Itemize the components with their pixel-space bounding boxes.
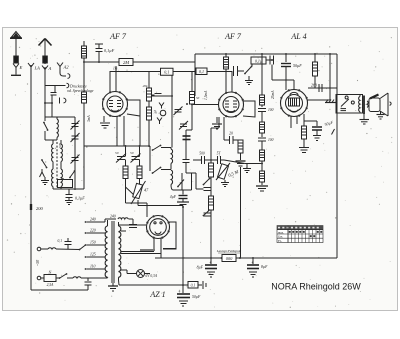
capacitor C 100b: [258, 138, 274, 150]
trimmer capacitor C t3: [71, 155, 80, 164]
field coil box 000: [216, 249, 242, 262]
wire y248 link: [140, 249, 176, 251]
svg-text:000: 000: [226, 256, 233, 261]
resistor R8: [238, 140, 243, 160]
wire A lead down: [44, 67, 46, 117]
potentiometer 47 tone tilted: [131, 181, 149, 206]
jack plug pickup bottom: [157, 118, 162, 125]
node junction at 125.5,146: [125, 145, 127, 147]
transformer T1 secondary winding: [61, 140, 62, 164]
wire AZ1 filament pair: [121, 252, 161, 254]
wire grid stub tube V1: [109, 71, 111, 92]
tap 220: [85, 229, 105, 234]
resistor box label 0,1u upper: [251, 57, 272, 66]
capacitor C g2 dark: [183, 136, 191, 140]
svg-text:50: 50: [115, 151, 119, 155]
dark wedge arrow: [370, 95, 379, 99]
capacitor C to ground 0,1uF: [66, 189, 86, 202]
svg-text:100: 100: [268, 138, 274, 142]
svg-text:125: 125: [90, 253, 96, 257]
svg-text:AF 7: AF 7: [224, 32, 242, 41]
wire diagonal to pot wiper: [126, 187, 135, 196]
lightning arrester on A lead: [43, 56, 48, 63]
wire V3 top stub: [285, 85, 287, 90]
switch block box: [58, 178, 73, 187]
ground symbol under C: [65, 201, 73, 205]
svg-text:AZ 1: AZ 1: [149, 290, 165, 299]
resistor box label 0,1 on W3: [196, 68, 207, 75]
choke 200 in LA lead: [30, 204, 32, 210]
svg-text:240: 240: [90, 218, 96, 222]
wire V1 pin down x117: [116, 116, 118, 146]
switch S3: [69, 170, 75, 178]
wire AZ1 pins down: [153, 238, 155, 249]
tap 110: [85, 265, 105, 270]
wire lamp tap: [121, 270, 127, 274]
svg-text:7k: 7k: [154, 111, 158, 115]
transformer T2 primary winding: [52, 164, 53, 189]
wire V2 grid stub: [225, 71, 227, 92]
wire link x195 down: [194, 90, 196, 96]
electrolytic 8uF right: [247, 258, 268, 277]
wire V2 left to x192: [192, 104, 219, 106]
fuse coil mains 2: [73, 277, 95, 278]
svg-text:Ger.: Ger.: [278, 235, 283, 239]
trimmer capacitor C g1: [174, 107, 183, 116]
resistor R4: [123, 160, 128, 184]
wire anode bracket V1: [127, 100, 140, 116]
ground at transformer bottom: [108, 283, 118, 291]
wire vertical x172 to oscillator coil: [171, 75, 173, 147]
svg-text:FL.: FL.: [278, 239, 283, 243]
fuse Si 2A: [41, 271, 59, 289]
svg-text:220: 220: [90, 229, 96, 233]
node junction at 187,104: [186, 103, 188, 105]
antenna A symbol: [39, 39, 52, 57]
wire V3 cathode pins: [290, 117, 292, 129]
capacitor C series x272: [270, 56, 274, 81]
secondary winding: [119, 222, 121, 280]
node dot x172 y96: [171, 95, 173, 97]
node junction at 99,62: [98, 61, 100, 63]
svg-text:od. Sprechanlage: od. Sprechanlage: [67, 89, 94, 93]
tap 150: [85, 241, 105, 246]
wire heater x183: [182, 206, 184, 286]
fuse coil mains 1: [41, 248, 80, 250]
node junction at 226,54: [225, 53, 227, 55]
svg-text:50µF: 50µF: [293, 63, 302, 68]
capacitor mains 2: [85, 278, 92, 290]
jack plug ground side: [40, 169, 45, 177]
svg-text:8µF: 8µF: [261, 265, 268, 269]
svg-text:+: +: [209, 260, 212, 265]
node junction at 139.5,146: [139, 145, 141, 147]
lightning arrester on E lead: [14, 56, 18, 63]
mains terminal 2: [37, 276, 41, 280]
hatched chassis link: [325, 100, 336, 103]
trimmer capacitor C t1: [71, 121, 80, 130]
svg-text:LA: LA: [34, 66, 41, 71]
transformer T2 secondary winding: [61, 164, 62, 189]
jack plug E: [11, 64, 23, 76]
resistor box label 2M: [119, 59, 133, 66]
jack plug pickup top: [159, 103, 164, 109]
trimmer capacitor C t2: [71, 133, 80, 142]
primary winding: [105, 220, 107, 278]
wire horizontal y96: [149, 95, 172, 97]
wire anode down to W4: [139, 116, 141, 146]
node junction at 221.5,258: [221, 257, 223, 259]
wire Drucktaste branch: [45, 83, 69, 88]
tube V1 AF7 envelope: [102, 91, 128, 117]
wire x240 long vertical to rail: [240, 167, 242, 258]
svg-text:A: A: [48, 66, 52, 71]
transformer core dashes: [56, 142, 58, 188]
node junction at 211,160: [210, 159, 212, 161]
transformer T1 primary winding: [52, 140, 53, 164]
node junction at 315,54: [314, 53, 316, 55]
trimmer capacitor C osc2: [130, 151, 141, 163]
switch S9: [203, 178, 211, 186]
wire coupling to V3 grid: [272, 80, 294, 89]
wire heater bus y285: [119, 284, 188, 286]
svg-text:110: 110: [90, 265, 96, 269]
switch selector arm: [79, 245, 86, 250]
node junction at 262,54: [261, 53, 263, 55]
capacitor across mains: [58, 238, 72, 249]
wire V2 cathode ground: [212, 117, 222, 129]
dial lamp: [127, 270, 158, 280]
wire right frame x337: [336, 54, 338, 258]
transformer core: [112, 221, 114, 283]
wire y190 bar: [173, 189, 192, 191]
capacitor C coupling series y71: [234, 66, 245, 76]
node junction at 330,54: [329, 53, 331, 55]
switch arm in box: [341, 99, 349, 107]
jack plug LA: [28, 63, 40, 71]
svg-text:20k: 20k: [143, 84, 148, 88]
wire secondary tap top: [121, 230, 126, 232]
svg-text:500: 500: [58, 143, 62, 148]
wire R4 bottom down: [125, 179, 127, 204]
resistor Rb: [147, 107, 152, 146]
capacitor C o1: [183, 160, 190, 174]
svg-text:NORA Rheingold 26W: NORA Rheingold 26W: [271, 282, 361, 292]
switch S5: [152, 145, 171, 151]
svg-text:25mA: 25mA: [271, 90, 275, 99]
resistor Ra 20k: [143, 72, 152, 108]
electrolytic 8uF left: [197, 258, 217, 277]
resistor R15 cathode: [302, 114, 307, 147]
wire second stub tube V1: [115, 66, 117, 92]
trimmer capacitor C osc1: [115, 151, 126, 163]
wire LA vertical: [30, 65, 32, 204]
resistor R11: [260, 95, 265, 107]
resistor box on heater bus: [188, 281, 206, 289]
wire HT to AZ1: [119, 224, 146, 226]
ground under speaker: [377, 112, 385, 120]
switch S9b: [203, 210, 210, 217]
wire bottom bar coil section: [53, 188, 84, 190]
svg-text:50: 50: [196, 96, 200, 100]
resistor R12: [260, 122, 265, 137]
svg-text:240: 240: [110, 215, 116, 219]
resistor R5: [137, 160, 142, 187]
resistor R1 1M top left: [82, 41, 87, 62]
wire down to coil box: [51, 103, 53, 117]
switch mains: [59, 273, 73, 279]
capacitor C chain2: [204, 213, 211, 216]
wire from V2 pin to chain: [211, 117, 219, 163]
wire vertical x195: [194, 54, 196, 90]
wire W4 y146: [84, 145, 150, 147]
node junction at 240,258: [239, 257, 241, 259]
wire link: [45, 102, 52, 104]
wire bus W1 y62: [84, 61, 119, 63]
capacitor C 20: [224, 132, 238, 145]
ground symbol under R15: [299, 148, 309, 153]
electrolytic 50uF bias: [177, 284, 201, 306]
tube V3 AL4 envelope: [280, 89, 307, 116]
resistor R10: [209, 196, 214, 258]
capacitor C1 0,1uF: [95, 44, 115, 62]
wire V1 pin down x124: [123, 116, 125, 146]
svg-text:4µF: 4µF: [170, 195, 177, 199]
capacitor bars under R8: [236, 161, 246, 166]
speaker voice coil: [367, 101, 368, 107]
coil L1 antenna: [45, 117, 58, 140]
resistor R7 between rails: [224, 54, 229, 71]
switch S7 trimmer arm: [177, 180, 184, 188]
node junction at 84,62: [83, 61, 85, 63]
svg-text:Si: Si: [49, 271, 52, 275]
svg-text:~50: ~50: [35, 260, 40, 266]
wire vertical x182: [181, 173, 183, 190]
wire vertical x187: [185, 130, 187, 160]
output transformer winding: [359, 95, 364, 114]
svg-text:50µF: 50µF: [192, 295, 201, 299]
capacitor C 500 series: [193, 152, 217, 165]
wire W5 y205.5: [138, 205, 183, 207]
svg-text:100: 100: [268, 108, 274, 112]
mains terminal 1: [37, 247, 41, 251]
svg-text:AL 4: AL 4: [290, 32, 306, 41]
svg-text:200: 200: [36, 206, 44, 211]
capacitor C small 400: [152, 94, 162, 97]
scan speckle noise: [7, 35, 393, 308]
switch S2 wave band: [41, 159, 47, 168]
coil L5: [171, 148, 173, 170]
wire AZ1 right bracket: [163, 222, 176, 249]
wire vertical x1915: [191, 173, 193, 190]
wire bottom rail y258: [155, 257, 337, 259]
jack circles in box: [345, 96, 348, 99]
wire top bar to x75: [57, 116, 75, 118]
capacitor C 4uF: [170, 190, 188, 199]
jack plug A2: [57, 63, 69, 70]
resistor R2 on x84: [82, 62, 87, 189]
node junction at 262,163.5: [261, 163, 263, 165]
wire y203 to AZ1: [126, 203, 148, 217]
svg-text:A2: A2: [63, 65, 70, 70]
node junction dots: [44, 102, 46, 104]
speaker magnet: [369, 98, 380, 112]
wire y173 link: [186, 173, 196, 189]
wire V3 anode to transformer: [308, 99, 331, 101]
wire LA vertical lower: [30, 210, 32, 290]
resistor R14: [260, 171, 265, 185]
electrolytic 50uF at top: [281, 54, 302, 90]
wire V2 stub2: [231, 71, 233, 92]
resistor R9: [209, 163, 214, 196]
wire anode bracket V2: [243, 101, 255, 117]
svg-text:500: 500: [199, 152, 205, 156]
wire V2 pins down: [223, 117, 225, 140]
wire cathode stub + ground V1: [100, 116, 110, 128]
switch S8: [244, 66, 252, 80]
tap 125: [85, 253, 105, 258]
trimmer capacitor C g1b: [179, 121, 188, 130]
wire vertical x330 from rail: [329, 54, 331, 94]
node junction at 211,258: [210, 257, 212, 259]
svg-text:E: E: [19, 65, 23, 70]
switch S6: [152, 167, 171, 174]
electrolytic 50uF cathode: [304, 119, 334, 130]
capacitor C a2 coupling: [51, 86, 57, 105]
ground antenna terminal E symbol: [10, 32, 22, 57]
capacitor C 100a: [258, 108, 274, 122]
resistor box label 0,1 first on W3: [161, 68, 174, 75]
jack plug A: [42, 63, 52, 71]
wire to divider right: [224, 160, 245, 164]
wire W3 grid line y71: [110, 71, 161, 73]
wire screen line 200: [308, 83, 337, 93]
svg-text:20: 20: [229, 132, 233, 136]
wire bottom mains: [31, 289, 88, 291]
wire bus W2 y54 top rail: [195, 53, 337, 55]
svg-text:260: 260: [311, 83, 317, 88]
capacitor in box: [341, 109, 347, 111]
tube V4 AZ1 envelope: [146, 215, 169, 238]
curl wire from A2 to jack hook: [60, 67, 70, 79]
svg-text:+: +: [251, 260, 254, 265]
socket circle pickup: [160, 110, 166, 116]
wire top stub: [261, 54, 263, 95]
ground under pot: [221, 180, 229, 187]
svg-text:Lautspr.Feldspule: Lautspr.Feldspule: [216, 249, 242, 253]
speaker connector box: [336, 95, 363, 114]
ground symbol under 50uF: [313, 130, 321, 141]
ground stub right: [243, 164, 251, 173]
wire vertical x150: [149, 146, 151, 171]
tap 240: [85, 215, 133, 225]
ground symbol under 4uF: [177, 199, 189, 208]
wire resistor drop x315: [313, 54, 318, 88]
jack contact pushbutton: [60, 98, 66, 104]
wire stub W4 to trimmers: [125, 146, 127, 157]
switch tick on frame wire: [332, 129, 335, 135]
speaker cone: [380, 93, 391, 116]
svg-text:3mA: 3mA: [87, 115, 91, 122]
capacitor C 5 series: [217, 152, 224, 165]
band switch S1: [43, 117, 48, 140]
svg-text:1m: 1m: [113, 67, 118, 71]
node junction at 253,258: [252, 257, 254, 259]
coil L6: [171, 170, 173, 190]
ground symbol left coil: [41, 177, 49, 185]
svg-text:50: 50: [130, 151, 134, 155]
potentiometer 0,5M volume tilted: [216, 163, 241, 180]
svg-text:8µF: 8µF: [197, 266, 204, 270]
capacitor across primary: [129, 225, 137, 228]
node junction at 272,60: [271, 59, 273, 61]
ground symbol chain bottom: [256, 186, 268, 191]
resistor R13: [260, 150, 265, 171]
svg-text:150: 150: [90, 241, 96, 245]
wire right branch vertical x75: [74, 117, 76, 190]
ground symbol under S8: [245, 81, 253, 85]
tube V2 AF7 envelope: [218, 92, 244, 118]
node junction at 286,54: [285, 53, 287, 55]
svg-text:AF 7: AF 7: [109, 32, 127, 41]
ground under transformer core: [360, 114, 370, 124]
capacitor C chain: [196, 188, 211, 191]
resistor R6 beside: [186, 72, 200, 131]
